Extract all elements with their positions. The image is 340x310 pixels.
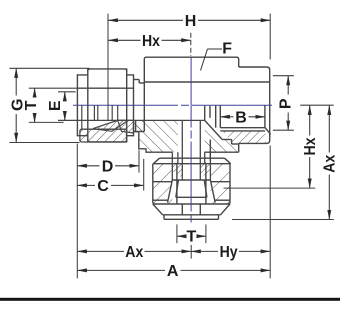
svg-text:E: E xyxy=(47,100,64,111)
hatch ferrule ring left xyxy=(172,162,182,178)
nut N1 lower band outline xyxy=(80,129,127,142)
extension line centerline right xyxy=(300,104,334,106)
nut N2 bottom outline xyxy=(153,158,231,219)
svg-text:H: H xyxy=(185,13,197,30)
svg-text:C: C xyxy=(97,178,109,195)
svg-text:Hy: Hy xyxy=(220,244,238,261)
centerline horizontal xyxy=(73,104,272,106)
hatch ferrule front xyxy=(93,120,128,131)
svg-text:T: T xyxy=(23,100,40,110)
ferrule F2 outline xyxy=(118,120,134,133)
nut N1 left port outline xyxy=(77,69,133,142)
dimension T bottom xyxy=(177,235,206,237)
svg-text:B: B xyxy=(235,109,247,126)
svg-text:Ax: Ax xyxy=(125,244,143,261)
dimension B xyxy=(220,116,265,118)
left port bore line xyxy=(58,119,205,121)
hatch left nut lower band xyxy=(80,129,127,142)
extension line Hx right bottom xyxy=(224,187,316,189)
extension line D tick xyxy=(138,150,140,172)
svg-text:Hx: Hx xyxy=(142,33,160,50)
extension line center tick xyxy=(190,245,192,259)
extension line Hx top dashed xyxy=(190,33,192,56)
dimension Ax right xyxy=(328,105,330,219)
dimension Ax bottom xyxy=(77,250,191,252)
extension line right x270 upper xyxy=(269,14,271,60)
hatch body right block xyxy=(205,120,239,152)
hatch ferrule ring right xyxy=(200,162,210,178)
svg-text:Ax: Ax xyxy=(321,155,338,173)
hatch under right port xyxy=(222,131,266,144)
dimension Hy xyxy=(191,250,270,252)
dimension C xyxy=(77,184,143,186)
dimension D xyxy=(77,165,139,167)
body stub left outline xyxy=(134,80,145,132)
extension line P top xyxy=(273,75,294,77)
svg-text:Hx: Hx xyxy=(302,137,319,155)
body lower-left step profile xyxy=(136,121,173,152)
right port outline xyxy=(205,67,271,161)
svg-text:F: F xyxy=(222,41,232,58)
dimension Hx right xyxy=(309,105,311,188)
branch bore xyxy=(172,120,210,180)
dimension A xyxy=(77,269,270,271)
extension line C tick xyxy=(143,159,145,191)
extension line E top xyxy=(58,91,76,93)
ferrule F1 outline xyxy=(93,120,128,131)
hatch bottom nut right xyxy=(210,164,230,204)
hatch body left block xyxy=(136,121,178,152)
dimension E xyxy=(64,92,66,121)
separator bar xyxy=(0,298,340,301)
dimension T left xyxy=(34,88,36,123)
extension line Ax right bottom xyxy=(232,219,334,221)
extension line right x270 lower xyxy=(269,146,271,279)
hatch body stub left xyxy=(134,120,145,131)
dimension H xyxy=(108,19,270,21)
svg-text:A: A xyxy=(167,263,179,280)
extension line T bottom xyxy=(29,121,64,123)
svg-text:D: D xyxy=(102,158,114,175)
extension line T top xyxy=(29,87,78,89)
extension line P bottom xyxy=(273,129,294,131)
extension line H left xyxy=(107,14,109,120)
extension line G bottom xyxy=(9,142,79,144)
hatch bottom nut left xyxy=(153,164,173,204)
body lower-right wing xyxy=(205,120,239,152)
extension line G top xyxy=(9,67,89,69)
extension line T2 tick right xyxy=(205,224,207,243)
extension line T2 tick left xyxy=(176,224,178,243)
nut N1 inner facet lines below center xyxy=(82,105,118,129)
centerline vertical xyxy=(190,58,192,225)
dimension Hx top xyxy=(108,39,191,41)
dimension G xyxy=(15,68,17,142)
svg-text:T: T xyxy=(187,229,197,246)
svg-text:P: P xyxy=(278,98,295,109)
dimension P xyxy=(287,76,289,131)
hatch ferrule back xyxy=(118,120,134,133)
body hex outline xyxy=(144,57,269,152)
extension line left x77 xyxy=(76,144,78,279)
